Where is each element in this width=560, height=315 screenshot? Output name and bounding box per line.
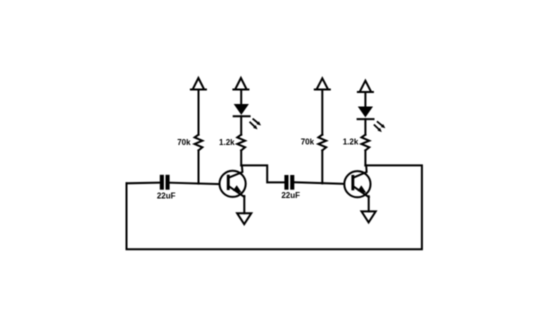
svg-text:70k: 70k: [177, 138, 191, 147]
svg-text:70k: 70k: [301, 137, 315, 146]
svg-text:22uF: 22uF: [157, 192, 176, 201]
svg-text:1.2k: 1.2k: [343, 137, 359, 146]
svg-text:22uF: 22uF: [281, 191, 300, 200]
svg-text:1.2k: 1.2k: [219, 138, 235, 147]
